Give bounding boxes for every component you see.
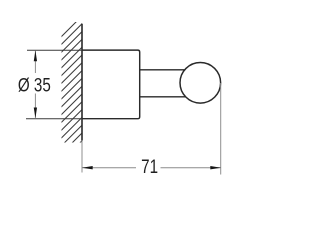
stem top line [140,69,187,71]
body bottom extension line (left of wall) [26,118,82,120]
hook body (cylinder side view) [82,50,140,119]
dia 35 dimension line upper segment [34,51,36,73]
body top extension line (left of wall) [27,49,82,51]
svg-text:71: 71 [141,155,158,177]
knob ball [180,63,221,104]
wall extension line (below wall, to 71-dim) [81,141,83,173]
wall face line [81,24,83,141]
71 arrow left [82,166,93,169]
wall hatching [46,6,92,185]
71 dimension line right segment [161,167,221,169]
71 dimension line left segment [82,167,136,169]
dia 35 dimension line lower segment [34,94,36,118]
dia 35 arrow up [34,50,37,61]
stem bottom line [140,96,187,98]
knob right extension line [220,83,222,175]
svg-text:Ø 35: Ø 35 [18,74,51,96]
dia 35 arrow down [34,108,37,119]
71 arrow right [210,166,221,169]
